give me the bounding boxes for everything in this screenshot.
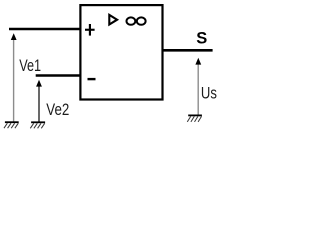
wire: non-inverting input <box>9 28 80 31</box>
wire: inverting input <box>36 74 81 77</box>
ground for Ve2 <box>30 122 45 128</box>
svg-text:Ve2: Ve2 <box>46 101 69 119</box>
wire: output <box>163 49 213 52</box>
source arrow Us <box>195 58 201 115</box>
infinite-gain triangle symbol <box>109 15 117 25</box>
svg-text:S: S <box>196 30 207 48</box>
op-amp U1 (ideal amplifier box) <box>80 5 162 99</box>
source arrow Ve2 <box>36 80 42 122</box>
ground for Us <box>187 115 202 122</box>
pin label - (inverting input) <box>88 78 96 80</box>
pin label + (non-inverting input) <box>85 24 95 36</box>
infinity symbol <box>126 17 145 24</box>
ground for Ve1 <box>4 122 19 128</box>
svg-text:Us: Us <box>201 85 217 103</box>
svg-text:Ve1: Ve1 <box>19 57 41 75</box>
source arrow Ve1 <box>11 33 17 121</box>
